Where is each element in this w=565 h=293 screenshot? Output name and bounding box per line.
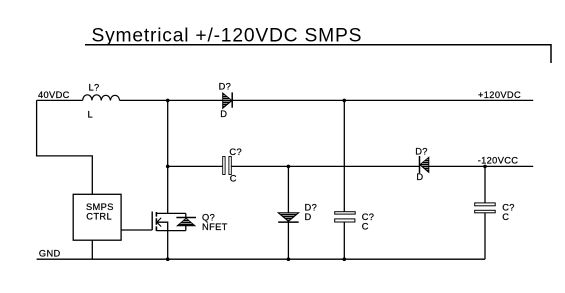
svg-text:CTRL: CTRL: [86, 211, 112, 221]
diode D2 (right, pointing left): [415, 147, 429, 182]
node +120VDC label: [478, 90, 521, 100]
wire drain vertical: [167, 100, 169, 213]
svg-text:-120VCC: -120VCC: [478, 156, 519, 166]
wire source to GND: [167, 231, 169, 260]
wire middle cap branch bottom: [343, 222, 345, 259]
junction mid rail at drain vertical: [166, 165, 170, 169]
svg-text:C: C: [502, 212, 509, 222]
diode D3 (vertical, pointing down): [278, 203, 317, 223]
junction top rail at middle cap: [343, 99, 347, 103]
node GND label: [39, 249, 61, 259]
svg-text:Symetrical +/-120VDC SMPS: Symetrical +/-120VDC SMPS: [92, 26, 363, 47]
wire right cap branch bottom: [484, 213, 486, 259]
wire middle cap branch top: [343, 100, 345, 211]
inductor L1: [83, 83, 120, 120]
svg-text:+120VDC: +120VDC: [478, 90, 521, 100]
junction mid rail at right cap: [483, 165, 487, 169]
wire left input drop: [37, 100, 93, 194]
capacitor C2 (middle, horizontal plates): [335, 212, 375, 232]
wire mid rail left segment: [168, 165, 223, 167]
svg-text:C?: C?: [229, 147, 242, 157]
junction gnd at freewheel diode: [287, 257, 291, 261]
svg-text:C: C: [362, 221, 369, 231]
svg-text:L?: L?: [89, 83, 100, 93]
svg-text:D?: D?: [305, 203, 318, 213]
wire right cap branch top: [484, 166, 486, 203]
capacitor C3 (right, horizontal plates): [475, 203, 515, 222]
wire freewheel diode branch bottom: [287, 222, 289, 259]
svg-text:C?: C?: [362, 212, 375, 222]
diode D1 (top, pointing right): [219, 82, 233, 120]
wire gate lead: [121, 229, 152, 231]
svg-text:D?: D?: [415, 147, 428, 157]
wire box bottom to GND: [91, 240, 93, 259]
wire top rail left segment: [37, 99, 83, 101]
op-amp U1 SMPS CTRL box: [73, 194, 121, 240]
svg-text:C: C: [230, 174, 237, 184]
svg-text:40VDC: 40VDC: [38, 90, 70, 100]
wire top rail right segment: [232, 99, 533, 101]
capacitor C1 (series, vertical plates): [223, 147, 242, 184]
junction gnd at source: [166, 257, 170, 261]
junction gnd at middle cap: [343, 257, 347, 261]
node -120VCC label: [478, 156, 519, 166]
wire mid rail center segment: [231, 165, 419, 167]
wire top rail to diode: [120, 99, 223, 101]
junction top rail at drain: [166, 99, 170, 103]
svg-text:D: D: [220, 109, 227, 119]
svg-text:D: D: [416, 172, 423, 182]
node 40VDC label: [38, 90, 70, 100]
svg-text:D: D: [305, 212, 312, 222]
title text: [92, 26, 363, 47]
svg-text:D?: D?: [219, 82, 232, 92]
junction mid rail at freewheel diode: [287, 165, 291, 169]
transistor Q1 NFET: [152, 212, 227, 232]
title underline: [85, 45, 551, 63]
svg-text:L: L: [88, 110, 94, 120]
svg-text:GND: GND: [39, 249, 61, 259]
ground rail: [37, 258, 485, 260]
svg-text:NFET: NFET: [202, 222, 228, 232]
wire mid rail right segment: [429, 165, 533, 167]
wire freewheel diode branch top: [287, 166, 289, 212]
